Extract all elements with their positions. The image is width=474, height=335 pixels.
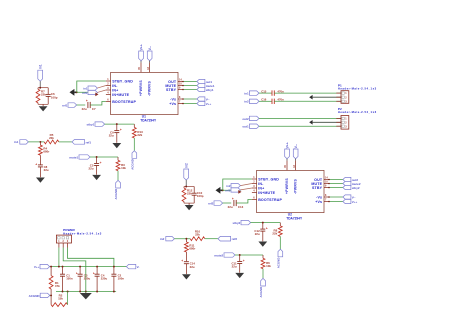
node ref2 tag bootstrap [208,201,222,206]
node ref1 tag [82,90,106,95]
resistor R11 680r [185,239,197,262]
svg-text:ref1: ref1 [62,103,68,107]
svg-text:+: + [232,197,234,201]
node in2 vertical net tag [184,163,189,187]
wire [259,117,341,119]
wire pin3 to V- side [68,248,114,267]
svg-text:ACGND: ACGND [29,294,41,298]
wire top bus [50,266,127,268]
svg-text:Header-Male-2.54_1x3: Header-Male-2.54_1x3 [338,87,377,91]
capacitor C14 22u [181,259,195,274]
svg-text:22k: 22k [49,136,54,140]
svg-text:100p: 100p [197,194,204,198]
svg-text:ACGND: ACGND [130,159,134,170]
svg-text:15k: 15k [58,297,63,301]
svg-text:+: + [120,128,122,132]
svg-text:V++: V++ [285,142,289,148]
svg-text:22k: 22k [137,133,142,137]
svg-text:ref2: ref2 [225,188,231,192]
resistor R12 22k [182,187,193,204]
svg-text:mute2: mute2 [214,254,223,258]
wire [174,238,190,240]
svg-text:STBY: STBY [312,186,323,190]
svg-text:+PWRVS: +PWRVS [139,80,143,96]
U left pins [106,78,137,104]
wire pin1 to V++ bus [58,248,60,267]
node ref2 tag [225,188,252,192]
svg-text:in2: in2 [185,163,189,168]
svg-text:+: + [86,99,88,103]
svg-text:out1: out1 [242,125,249,129]
svg-text:ref2: ref2 [232,237,238,241]
node V++ tag [182,101,211,105]
U2 reference [288,213,292,217]
svg-text:22k: 22k [187,192,192,196]
svg-text:C15: C15 [261,89,267,93]
node V++ tag [34,264,50,269]
node V-- tag top [293,144,298,161]
connector P2 Header-Male-2.54_1x3 [336,107,376,129]
node ref1 tag [72,140,91,145]
U left pins [252,176,283,202]
resistor R2 15k [51,294,68,307]
ground [182,274,191,279]
wire [259,125,341,127]
gnd arrow left P1 [309,95,341,100]
svg-text:in1: in1 [14,140,19,144]
wire to IN+MUTE [77,91,95,93]
svg-text:STBY: STBY [166,88,177,92]
node V++ tag [328,199,357,203]
wire bottom bus [56,291,116,293]
svg-text:+PWRVS: +PWRVS [285,178,289,194]
svg-text:10k: 10k [121,166,126,170]
svg-text:IN+: IN+ [258,186,264,190]
svg-text:+: + [76,271,78,275]
U top pins [284,161,297,194]
node stby2 tag [328,185,360,189]
ground [258,242,267,247]
wire mute [235,254,263,256]
gnd arrow left [216,187,224,194]
svg-text:C13: C13 [238,205,244,209]
U top pins [138,63,151,96]
svg-text:Header-Male-2.54_1x3: Header-Male-2.54_1x3 [338,110,377,114]
svg-text:in1: in1 [39,64,43,69]
svg-text:C7: C7 [92,107,96,111]
capacitor C11 22u [231,255,244,273]
node in1 tag input [14,140,28,145]
svg-text:TDA7294Y: TDA7294Y [286,216,303,220]
svg-text:22k: 22k [41,93,46,97]
svg-text:100n: 100n [66,277,73,281]
svg-text:ACGND: ACGND [276,258,280,269]
svg-text:stby1: stby1 [206,88,214,92]
wire [205,238,218,240]
node in2 tag [244,99,259,104]
svg-text:in2: in2 [160,237,165,241]
resistor R1 47k [49,267,60,296]
svg-text:100n: 100n [118,277,125,281]
node out1 tag [242,124,259,129]
svg-text:-PWRVS: -PWRVS [294,179,298,194]
ground [39,104,48,111]
node out2 tag [242,116,259,121]
node V-- tag [182,97,209,101]
svg-text:Header-Male-2.54_1x3: Header-Male-2.54_1x3 [63,231,102,235]
svg-text:ACGND: ACGND [259,287,263,298]
svg-text:IN+MUTE: IN+MUTE [258,191,275,195]
svg-text:470n: 470n [277,98,284,102]
svg-text:in2: in2 [244,100,249,104]
node V-- tag top [147,46,152,63]
svg-text:47k: 47k [55,284,60,288]
node in2 tag input [160,237,174,242]
svg-text:IN-: IN- [112,84,118,88]
svg-text:680r: 680r [189,247,196,251]
svg-text:V--: V-- [206,97,210,101]
svg-text:+Vs: +Vs [169,102,176,106]
svg-text:+: + [100,161,102,165]
svg-text:V--: V-- [294,144,298,148]
svg-text:V-: V- [137,265,140,269]
wire input RC rails [38,87,48,105]
svg-text:stby1: stby1 [86,123,94,127]
svg-text:+Vs: +Vs [315,200,322,204]
capacitor C5 22u [89,157,102,175]
ground [235,273,244,278]
svg-text:22k: 22k [272,232,277,236]
svg-text:22u: 22u [255,232,260,236]
svg-text:+: + [35,162,37,166]
node mute2 tag [328,181,361,185]
node ref2 tag [218,236,237,241]
resistor R7 22k [36,88,46,105]
svg-text:ref1: ref1 [82,91,88,95]
op-amp U1 TDA7294 [111,72,178,114]
junction [76,91,78,93]
svg-text:IN+MUTE: IN+MUTE [112,93,129,97]
gnd arrow left [70,89,78,96]
wire [279,237,281,250]
svg-text:V++: V++ [34,265,40,269]
node out2 tag [328,177,358,181]
svg-text:22u: 22u [232,264,237,268]
capacitor C16 470n [259,98,284,105]
svg-text:+: + [181,259,183,263]
svg-text:IN-: IN- [258,182,264,186]
capacitor C10 100p [192,187,204,204]
node ACGND tag [114,180,120,199]
ground [36,178,45,183]
arrow right [238,190,241,194]
svg-text:+: + [266,227,268,231]
svg-text:in1: in1 [244,92,249,96]
svg-text:in1: in1 [83,86,87,90]
svg-text:100p: 100p [51,95,58,99]
wire [67,292,69,305]
resistor R13 22k [132,124,143,138]
svg-text:22u: 22u [109,134,114,138]
node in1 tag [83,86,106,91]
capacitor C3 220u [76,267,91,292]
wire [28,141,44,143]
resistor R10 22k [190,230,205,241]
resistor R8 22k [272,223,282,237]
node in1 tag [244,91,259,96]
gnd arrow left P2 [309,120,341,125]
wire mute [90,156,118,158]
svg-text:V++: V++ [206,102,212,106]
svg-text:22k: 22k [195,233,200,237]
svg-text:stby2: stby2 [232,221,240,225]
connector POWER Header-Male-2.54_1x3 [56,228,101,247]
node stby2 tag [232,220,250,225]
wire [133,138,135,151]
wire to BOOTSTRAP [90,102,106,106]
svg-text:in2: in2 [226,184,230,188]
svg-text:10k: 10k [266,264,271,268]
wire [274,92,341,94]
node stby1 tag [86,122,104,127]
node mute2 tag [214,253,235,258]
svg-text:-Vs: -Vs [170,97,176,101]
svg-text:IN+: IN+ [112,88,118,92]
U right pins [165,79,182,106]
svg-text:22u: 22u [228,205,233,209]
junction [222,189,224,191]
wire [223,202,232,204]
svg-text:BOOTSTRAP: BOOTSTRAP [112,100,136,104]
wire [59,141,72,143]
svg-text:+: + [93,271,95,275]
node ACGND tag [276,249,282,268]
capacitor C13 22u [228,197,244,209]
ground [80,292,92,300]
wire to IN+MUTE [223,189,241,191]
svg-text:STBY_GND: STBY_GND [258,177,279,181]
node ACGND tag [130,151,136,170]
node in1 vertical net tag [38,64,43,88]
ground [185,203,194,210]
svg-text:V++: V++ [352,200,358,204]
wire [77,104,86,106]
U2 value [286,216,303,220]
node stby1 tag [182,87,214,91]
capacitor C12 22u [254,223,267,242]
wire stby [105,123,135,125]
wire [262,269,264,279]
svg-text:22u: 22u [82,107,87,111]
svg-text:22u: 22u [89,166,94,170]
wire pin2 to gnd rail [63,248,86,292]
U1 reference [142,115,146,119]
ground [92,175,101,180]
svg-text:V++: V++ [139,44,143,50]
node ACGND tag [29,293,52,298]
svg-text:STBY_GND: STBY_GND [112,79,133,83]
svg-text:C16: C16 [261,98,267,102]
node in2 tag [226,184,252,188]
node out1 tag [182,79,212,83]
wire [274,100,341,102]
node V- tag [126,264,139,269]
svg-text:ACGND: ACGND [114,189,118,200]
svg-text:-Vs: -Vs [316,195,322,199]
U right pins [311,177,328,204]
svg-text:out2: out2 [242,117,249,121]
capacitor C4 220u [93,267,108,292]
node V++ tag top [285,142,290,160]
node ACGND tag [259,278,265,297]
capacitor C8 22u [35,162,49,177]
op-amp U2 TDA7294 [257,170,324,212]
svg-text:V--: V-- [352,195,356,199]
svg-text:22u: 22u [190,265,195,269]
capacitor C6 100p [46,88,58,105]
capacitor C1 100n [60,267,73,292]
capacitor C7 22u [82,99,96,111]
svg-text:stby2: stby2 [352,186,360,190]
resistor R3 10k [116,157,126,171]
svg-text:470n: 470n [277,89,284,93]
svg-text:-PWRVS: -PWRVS [148,81,152,96]
node V++ tag top [139,44,144,62]
svg-text:680r: 680r [43,150,50,154]
node mute1 tag [182,83,215,87]
node ref1 tag bootstrap [62,103,76,108]
svg-text:ref1: ref1 [86,140,92,144]
node mute1 tag [69,155,90,160]
resistor R5 22k [44,133,59,144]
capacitor C15 470n [259,89,284,96]
svg-text:220u: 220u [101,277,108,281]
ground [112,143,121,148]
wire stby [251,222,281,224]
node V-- tag [328,195,355,199]
arrow right [95,93,98,97]
svg-text:V--: V-- [148,46,152,50]
resistor R4 680r [39,142,51,165]
wire to STBY_GND [77,81,106,92]
capacitor C9 22u [109,124,122,143]
svg-text:mute1: mute1 [69,156,78,160]
capacitor C2 100n [111,267,124,292]
connector P1 Header-Male-2.54_1x3 [336,84,376,104]
wire [117,171,119,181]
wire to STBY_GND [223,179,252,190]
resistor R6 10k [261,255,271,269]
svg-text:+: + [243,259,245,263]
U1 value [140,118,157,122]
wire input RC rails [184,186,194,204]
svg-text:BOOTSTRAP: BOOTSTRAP [258,198,282,202]
svg-text:22u: 22u [44,168,49,172]
svg-text:220u: 220u [84,277,91,281]
wire to BOOTSTRAP [236,200,252,204]
svg-text:TDA7294Y: TDA7294Y [140,118,157,122]
svg-text:ref2: ref2 [208,201,214,205]
